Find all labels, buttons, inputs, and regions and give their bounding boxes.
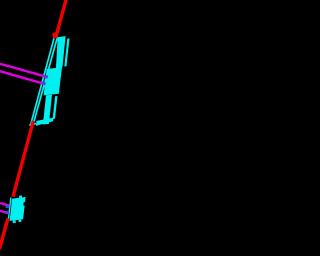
pad U2 bottom bump 2 xyxy=(18,219,21,222)
pad P2 left bar xyxy=(43,95,52,125)
component U1 pads/body (rotated ~6.4deg) xyxy=(36,36,70,126)
via V3 xyxy=(6,205,9,208)
red trace end blob at pad P1 xyxy=(52,32,58,38)
wire magenta trace M3 xyxy=(0,203,9,206)
pad U2 main xyxy=(10,197,26,221)
pad P1 right stroke xyxy=(64,38,69,66)
wire magenta trace M4 xyxy=(0,211,9,214)
via V1 xyxy=(44,75,47,78)
pad U2 right notch xyxy=(23,202,26,206)
wire magenta trace M2 xyxy=(0,71,45,84)
wire red trace segment 2 xyxy=(13,121,33,197)
wire outline left line 1 xyxy=(31,34,55,125)
component U2 pad (bottom left part) xyxy=(10,195,27,223)
wire outline left line 2 xyxy=(34,37,58,122)
wire outline bottom cap xyxy=(29,124,36,126)
component U2 outline line (small part, bottom left) xyxy=(8,197,11,221)
wire magenta trace M1 xyxy=(0,64,48,77)
component U1 outline (courtyard lines, rotated ~16deg) xyxy=(29,34,57,125)
pad P2 bottom cap xyxy=(36,118,53,126)
component U1 body xyxy=(44,67,62,95)
via V4 xyxy=(5,211,8,214)
pad P2 right stroke xyxy=(53,96,58,119)
pad U2 top bump xyxy=(19,195,22,198)
pad U2 bottom bump 1 xyxy=(13,220,16,223)
wire red trace segment 1 xyxy=(56,0,67,38)
wire red trace segment 3 xyxy=(0,219,8,250)
pad P1 column xyxy=(56,36,66,69)
via V2 xyxy=(42,82,45,85)
